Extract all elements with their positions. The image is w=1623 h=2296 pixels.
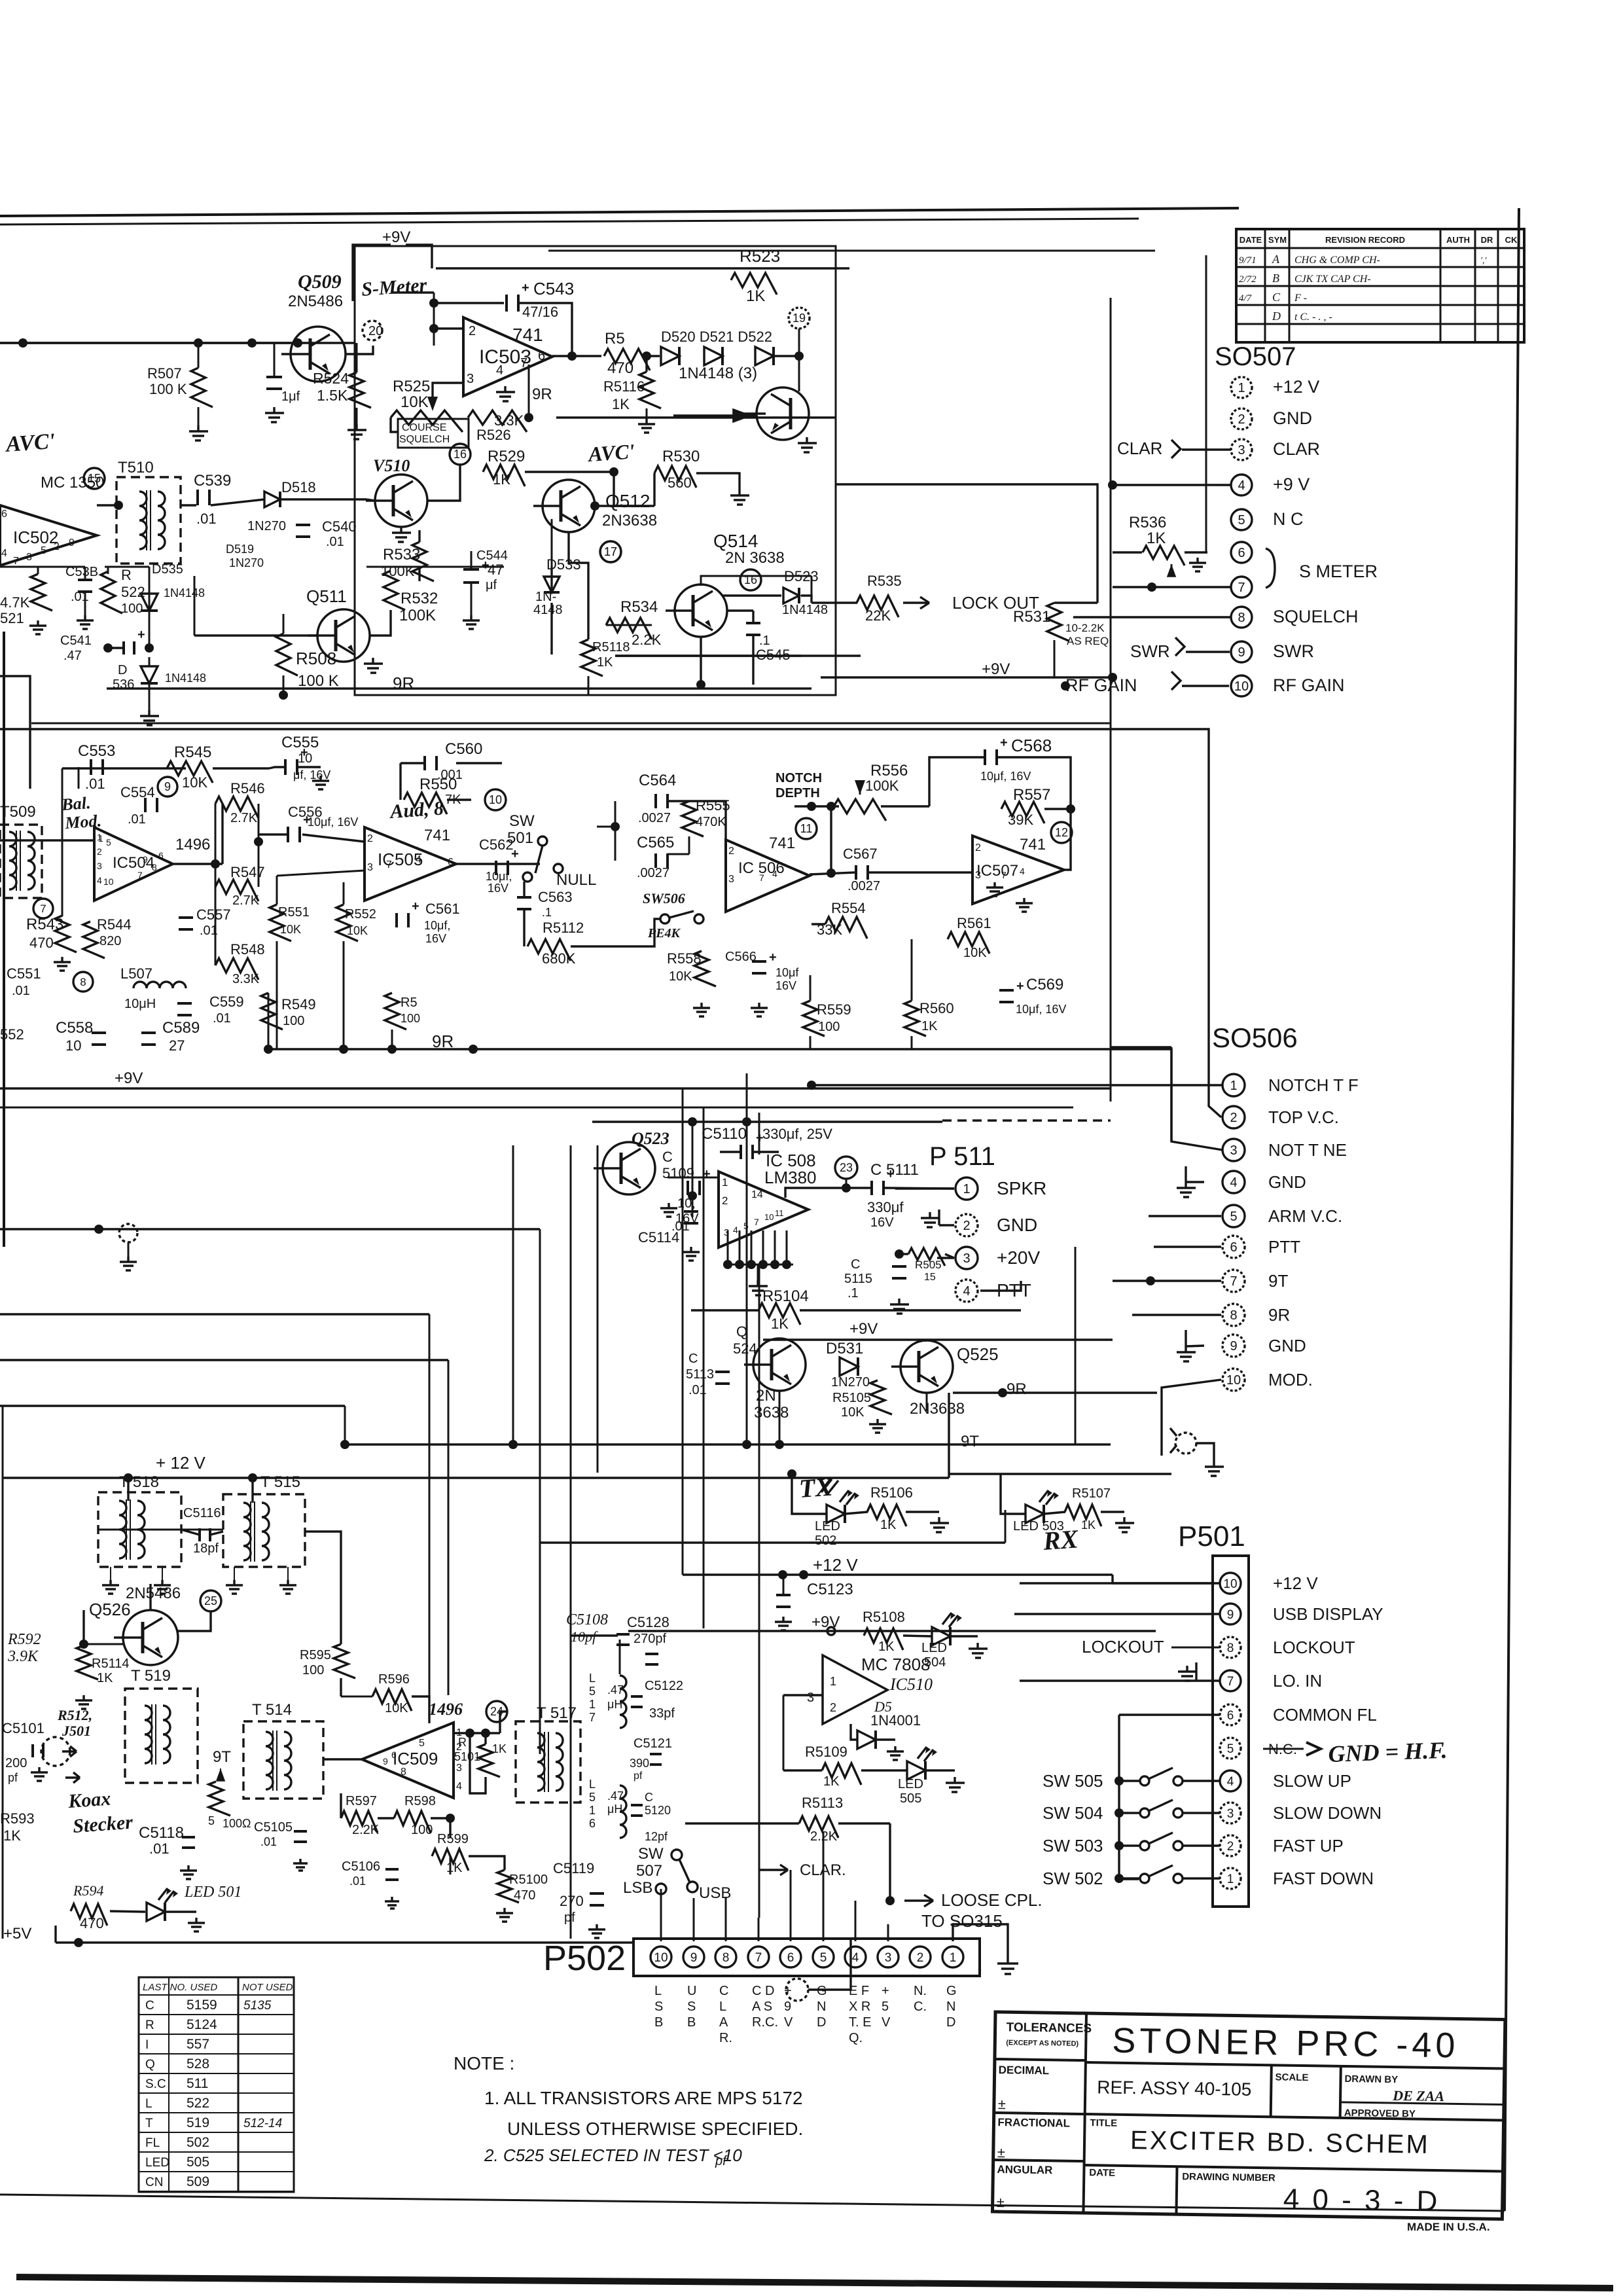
svg-text:R5118: R5118 xyxy=(592,640,630,655)
svg-text:R5112: R5112 xyxy=(543,920,584,936)
svg-text:+: + xyxy=(769,950,777,965)
svg-text:T510: T510 xyxy=(118,459,154,476)
svg-text:2: 2 xyxy=(97,846,102,857)
svg-text:GND: GND xyxy=(997,1215,1037,1235)
svg-text:+: + xyxy=(522,281,529,295)
svg-text:5120: 5120 xyxy=(645,1804,671,1817)
svg-text:4/7: 4/7 xyxy=(1239,293,1253,304)
svg-text:C568: C568 xyxy=(1011,736,1052,755)
svg-text:R546: R546 xyxy=(230,780,265,797)
svg-text:1: 1 xyxy=(963,1182,970,1196)
svg-text:+9 V: +9 V xyxy=(1273,475,1310,494)
svg-text:2: 2 xyxy=(1230,1111,1237,1125)
svg-text:USB DISPLAY: USB DISPLAY xyxy=(1273,1604,1383,1624)
svg-text:10: 10 xyxy=(298,751,312,766)
svg-text:C565: C565 xyxy=(637,834,674,852)
svg-text:7: 7 xyxy=(13,556,19,567)
svg-text:COURSE: COURSE xyxy=(402,422,446,433)
svg-text:12: 12 xyxy=(1055,826,1068,839)
svg-text:R597: R597 xyxy=(346,1794,377,1808)
svg-text:C5118: C5118 xyxy=(139,1824,184,1842)
svg-text:SO506: SO506 xyxy=(1212,1022,1298,1053)
svg-text:T: T xyxy=(145,2117,153,2130)
svg-text:2N5486: 2N5486 xyxy=(288,293,343,310)
svg-text:C5116: C5116 xyxy=(183,1506,221,1520)
svg-text:DATE: DATE xyxy=(1240,235,1262,245)
svg-text:4: 4 xyxy=(852,1951,859,1965)
svg-text:.01: .01 xyxy=(349,1874,366,1888)
svg-text:17: 17 xyxy=(604,545,617,558)
svg-text:.01: .01 xyxy=(260,1835,277,1848)
svg-text:1: 1 xyxy=(589,1698,596,1711)
svg-text:C D: C D xyxy=(752,1984,774,1998)
svg-text:μf: μf xyxy=(486,578,497,592)
svg-text:NOT USED: NOT USED xyxy=(242,1982,293,1993)
svg-text:3: 3 xyxy=(807,1691,814,1705)
svg-text:NOTCH T F: NOTCH T F xyxy=(1268,1075,1359,1095)
svg-text:22K: 22K xyxy=(865,607,891,624)
svg-text:8: 8 xyxy=(1238,611,1245,625)
svg-text:CLAR.: CLAR. xyxy=(800,1861,846,1879)
svg-text:C5122: C5122 xyxy=(645,1679,683,1693)
svg-text:3: 3 xyxy=(456,1763,462,1774)
svg-text:1K: 1K xyxy=(597,655,613,670)
svg-text:4: 4 xyxy=(1230,1175,1237,1190)
svg-text:C5119: C5119 xyxy=(553,1860,594,1876)
svg-text:RF GAIN: RF GAIN xyxy=(1273,675,1345,695)
svg-text:R560: R560 xyxy=(919,1000,954,1016)
svg-text:D: D xyxy=(817,2015,826,2030)
svg-text:TOLERANCES: TOLERANCES xyxy=(1006,2020,1092,2036)
svg-text:+5V: +5V xyxy=(3,1925,31,1943)
svg-text:LED: LED xyxy=(815,1519,840,1534)
svg-text:2N 3638: 2N 3638 xyxy=(725,549,785,567)
svg-text:B: B xyxy=(687,2015,696,2030)
svg-text:C5108: C5108 xyxy=(566,1611,608,1628)
svg-text:10K: 10K xyxy=(963,946,987,960)
svg-text:3: 3 xyxy=(367,862,373,873)
svg-text:1N270: 1N270 xyxy=(229,556,264,569)
svg-text:R556: R556 xyxy=(870,762,908,780)
svg-text:+12 V: +12 V xyxy=(1273,1573,1318,1593)
svg-text:GND: GND xyxy=(1268,1172,1306,1192)
svg-text:EXCITER BD. SCHEM: EXCITER BD. SCHEM xyxy=(1130,2126,1430,2159)
svg-text:3.9K: 3.9K xyxy=(7,1648,39,1665)
svg-text:8: 8 xyxy=(401,1767,406,1778)
svg-text:C: C xyxy=(719,1984,728,1998)
svg-text:R5: R5 xyxy=(401,996,418,1010)
svg-text:1K: 1K xyxy=(493,471,510,488)
svg-text:6: 6 xyxy=(1238,546,1245,560)
svg-text:10: 10 xyxy=(65,1037,81,1054)
svg-text:2: 2 xyxy=(469,324,476,338)
svg-text:GND: GND xyxy=(1268,1336,1306,1355)
svg-text:470K: 470K xyxy=(696,815,726,829)
svg-text:R552: R552 xyxy=(345,907,376,922)
svg-text:REVISION RECORD: REVISION RECORD xyxy=(1325,235,1405,245)
svg-text:C: C xyxy=(645,1791,653,1804)
svg-text:.47: .47 xyxy=(607,1789,624,1803)
svg-text:pf: pf xyxy=(8,1771,18,1784)
svg-text:C.: C. xyxy=(914,2000,927,2014)
svg-text:507: 507 xyxy=(636,1862,662,1880)
svg-text:1K: 1K xyxy=(492,1742,507,1755)
svg-text:522: 522 xyxy=(121,584,145,600)
svg-text:2. C525 SELECTED IN TEST <1: 2. C525 SELECTED IN TEST <10 xyxy=(484,2145,742,2165)
svg-text:TITLE: TITLE xyxy=(1090,2117,1117,2129)
svg-text:C541: C541 xyxy=(60,634,92,648)
svg-text:R523: R523 xyxy=(740,246,780,266)
svg-text:10K: 10K xyxy=(669,969,692,984)
svg-text:9R: 9R xyxy=(393,673,414,693)
svg-text:C5101: C5101 xyxy=(2,1720,45,1736)
svg-text:.01: .01 xyxy=(213,1011,231,1026)
svg-text:R598: R598 xyxy=(404,1794,436,1808)
svg-text:μH: μH xyxy=(607,1698,622,1711)
svg-text:1K: 1K xyxy=(880,1518,897,1532)
svg-text:100K: 100K xyxy=(399,607,436,624)
svg-text:1: 1 xyxy=(830,1675,836,1688)
svg-text:CLAR: CLAR xyxy=(1273,439,1320,459)
svg-text:470: 470 xyxy=(80,1915,104,1931)
svg-text:10K: 10K xyxy=(841,1405,865,1420)
svg-text:2: 2 xyxy=(975,842,981,853)
svg-text:C: C xyxy=(688,1352,698,1366)
svg-text:C540: C540 xyxy=(322,518,357,535)
svg-text:C: C xyxy=(1272,291,1281,304)
svg-text:DR: DR xyxy=(1481,235,1493,245)
svg-text:R: R xyxy=(145,2018,154,2032)
svg-text:pf: pf xyxy=(633,1770,643,1782)
svg-text:200: 200 xyxy=(5,1756,27,1770)
svg-text:7: 7 xyxy=(1227,1675,1234,1689)
svg-text:SO507: SO507 xyxy=(1215,342,1296,371)
svg-text:5: 5 xyxy=(589,1791,596,1804)
svg-text:L: L xyxy=(145,2097,152,2111)
svg-text:SCALE: SCALE xyxy=(1275,2072,1308,2083)
svg-text:512-14: 512-14 xyxy=(243,2117,282,2130)
svg-text:505: 505 xyxy=(187,2155,209,2170)
svg-text:19: 19 xyxy=(793,312,806,325)
svg-text:4: 4 xyxy=(416,854,421,865)
svg-text:NULL: NULL xyxy=(556,871,596,889)
svg-text:5113: 5113 xyxy=(686,1367,714,1382)
svg-text:+9V: +9V xyxy=(115,1069,143,1087)
svg-text:5: 5 xyxy=(1238,513,1245,528)
svg-text:100: 100 xyxy=(401,1012,420,1025)
svg-text:LM380: LM380 xyxy=(764,1168,817,1187)
svg-text:B: B xyxy=(1272,272,1279,285)
svg-text:CN: CN xyxy=(145,2176,163,2189)
svg-text:100: 100 xyxy=(121,601,143,616)
svg-text:4: 4 xyxy=(963,1284,970,1299)
svg-text:S-Meter: S-Meter xyxy=(361,274,427,300)
svg-text:T 514: T 514 xyxy=(252,1701,292,1719)
svg-text:7: 7 xyxy=(754,1217,759,1227)
svg-text:3: 3 xyxy=(1230,1143,1237,1158)
svg-text:R5108: R5108 xyxy=(863,1609,905,1625)
svg-text:FAST DOWN: FAST DOWN xyxy=(1273,1869,1374,1888)
svg-text:R5105: R5105 xyxy=(832,1391,871,1405)
svg-text:3: 3 xyxy=(1238,443,1245,457)
svg-text:9: 9 xyxy=(784,2000,791,2014)
svg-text:+: + xyxy=(412,899,419,914)
svg-text:16V: 16V xyxy=(488,882,508,895)
svg-text:11: 11 xyxy=(800,822,813,835)
svg-text:R549: R549 xyxy=(281,996,316,1013)
svg-text:D520 D521 D522: D520 D521 D522 xyxy=(661,329,772,345)
svg-text:NOT T NE: NOT T NE xyxy=(1268,1140,1347,1160)
svg-text:UNLESS OTHERWISE SPECIFIED.: UNLESS OTHERWISE SPECIFIED. xyxy=(507,2119,803,2139)
svg-text:C561: C561 xyxy=(425,901,460,917)
svg-text:4: 4 xyxy=(733,1225,738,1235)
svg-text:6: 6 xyxy=(158,850,164,861)
svg-text:L: L xyxy=(654,1984,662,1998)
svg-text:470: 470 xyxy=(514,1888,535,1903)
svg-text:U: U xyxy=(687,1984,696,1998)
svg-text:+ 12 V: + 12 V xyxy=(156,1453,206,1473)
svg-text:Bal.: Bal. xyxy=(60,793,91,814)
svg-text:LO. IN: LO. IN xyxy=(1273,1671,1322,1691)
svg-text:SW 505: SW 505 xyxy=(1043,1771,1103,1791)
svg-text:D531: D531 xyxy=(826,1340,863,1357)
svg-text:R.: R. xyxy=(719,2031,732,2045)
svg-text:R534: R534 xyxy=(620,598,658,616)
svg-text:AUTH: AUTH xyxy=(1446,235,1470,245)
svg-text:T 519: T 519 xyxy=(131,1667,171,1685)
svg-text:1: 1 xyxy=(589,1804,596,1817)
svg-text:C566: C566 xyxy=(725,950,757,964)
svg-text:.01: .01 xyxy=(671,1219,690,1234)
svg-text:AS REQ: AS REQ xyxy=(1067,635,1109,647)
svg-text:390: 390 xyxy=(630,1757,649,1770)
svg-text:6: 6 xyxy=(787,1951,794,1965)
svg-text:6: 6 xyxy=(391,1749,397,1760)
svg-text:SQUELCH: SQUELCH xyxy=(1273,607,1359,626)
svg-text:USB: USB xyxy=(699,1884,731,1902)
svg-text:R536: R536 xyxy=(1129,514,1166,531)
svg-text:SQUELCH: SQUELCH xyxy=(399,434,450,445)
svg-text:.1: .1 xyxy=(542,906,552,919)
svg-text:D: D xyxy=(1272,310,1281,323)
svg-text:R5: R5 xyxy=(605,330,625,348)
svg-text:.0027: .0027 xyxy=(637,866,669,880)
svg-text:9: 9 xyxy=(143,854,148,865)
svg-text:F -: F - xyxy=(1294,293,1307,304)
svg-text:IC507: IC507 xyxy=(976,862,1018,880)
svg-text:R596: R596 xyxy=(378,1672,410,1687)
svg-text:N C: N C xyxy=(1273,509,1304,529)
svg-text:DATE: DATE xyxy=(1089,2167,1115,2179)
svg-text:7: 7 xyxy=(1230,1274,1237,1289)
svg-text:511: 511 xyxy=(187,2076,208,2091)
svg-text:33pf: 33pf xyxy=(649,1706,675,1721)
svg-text:C554: C554 xyxy=(120,784,155,800)
svg-text:MADE IN U.S.A.: MADE IN U.S.A. xyxy=(1407,2221,1490,2233)
svg-text:Q: Q xyxy=(145,2058,155,2072)
svg-text:1K: 1K xyxy=(3,1827,21,1844)
svg-text:R599: R599 xyxy=(437,1832,469,1846)
svg-text:C563: C563 xyxy=(538,889,573,905)
svg-text:TX: TX xyxy=(798,1471,834,1503)
svg-text:S: S xyxy=(654,2000,663,2014)
svg-text:N.: N. xyxy=(914,1984,927,1998)
svg-text:4: 4 xyxy=(1,548,7,559)
svg-text:Koax: Koax xyxy=(67,1788,111,1813)
svg-text:D519: D519 xyxy=(226,543,254,556)
svg-text:1N4148: 1N4148 xyxy=(164,586,205,600)
svg-text:2N3638: 2N3638 xyxy=(910,1400,965,1418)
svg-text:9: 9 xyxy=(164,780,171,793)
svg-text:6: 6 xyxy=(1230,1240,1237,1255)
svg-text:P501: P501 xyxy=(1178,1520,1245,1552)
svg-text:L: L xyxy=(589,1778,596,1791)
svg-text:ARM V.C.: ARM V.C. xyxy=(1268,1206,1342,1226)
svg-text:2.2K: 2.2K xyxy=(352,1823,380,1837)
svg-text:680K: 680K xyxy=(542,950,576,967)
svg-text:7: 7 xyxy=(1238,581,1245,595)
svg-text:100K: 100K xyxy=(381,563,415,579)
svg-text:SLOW UP: SLOW UP xyxy=(1273,1771,1351,1791)
svg-text:5: 5 xyxy=(820,1951,827,1965)
svg-text:V: V xyxy=(882,2015,891,2030)
svg-text:7: 7 xyxy=(1001,870,1007,880)
svg-text:5: 5 xyxy=(419,1738,425,1749)
svg-text:8: 8 xyxy=(80,976,86,988)
svg-text:9: 9 xyxy=(1238,645,1245,660)
svg-text:D535: D535 xyxy=(152,562,183,577)
svg-text:C5110: C5110 xyxy=(702,1125,747,1143)
svg-text:5109: 5109 xyxy=(662,1165,694,1181)
svg-text:R550: R550 xyxy=(419,776,457,793)
svg-text:LOCKOUT: LOCKOUT xyxy=(1273,1638,1355,1657)
svg-text:1K: 1K xyxy=(97,1671,113,1685)
svg-text:270pf: 270pf xyxy=(633,1632,666,1646)
svg-text:+12 V: +12 V xyxy=(813,1555,858,1575)
svg-text:R545: R545 xyxy=(174,744,211,761)
svg-text:SYM: SYM xyxy=(1268,235,1287,245)
svg-text:9R: 9R xyxy=(1268,1305,1290,1325)
svg-text:.01: .01 xyxy=(326,535,344,549)
svg-text:R5113: R5113 xyxy=(802,1795,843,1811)
svg-text:CK: CK xyxy=(1505,235,1518,245)
svg-text:SW506: SW506 xyxy=(643,890,685,906)
svg-text:Aud, 8: Aud, 8 xyxy=(388,797,444,823)
svg-text:AVC': AVC' xyxy=(586,439,635,466)
svg-text:C5121: C5121 xyxy=(633,1736,672,1751)
svg-text:3: 3 xyxy=(963,1251,970,1266)
svg-text:R533: R533 xyxy=(383,546,420,564)
svg-text:9: 9 xyxy=(690,1951,698,1965)
svg-text:R535: R535 xyxy=(867,573,902,589)
svg-text:100: 100 xyxy=(818,1020,840,1034)
svg-text:2: 2 xyxy=(963,1219,970,1233)
svg-text:14: 14 xyxy=(751,1189,763,1200)
svg-text:V510: V510 xyxy=(373,456,410,475)
svg-text:MC 7808: MC 7808 xyxy=(861,1655,931,1674)
svg-text:6: 6 xyxy=(589,1817,596,1830)
svg-text:10K: 10K xyxy=(385,1701,408,1715)
svg-text:R558: R558 xyxy=(667,950,702,967)
svg-text:9: 9 xyxy=(69,537,75,548)
svg-text:5: 5 xyxy=(1227,1742,1234,1756)
svg-text:Q509: Q509 xyxy=(298,271,342,293)
svg-text:R5106: R5106 xyxy=(870,1484,913,1501)
svg-text:3: 3 xyxy=(26,552,32,563)
svg-text:IC509: IC509 xyxy=(393,1749,438,1768)
svg-text:C557: C557 xyxy=(196,906,231,923)
svg-text:+: + xyxy=(137,628,145,642)
svg-text:N: N xyxy=(946,2000,955,2014)
svg-text:G: G xyxy=(946,1984,957,1998)
svg-text:DRAWING NUMBER: DRAWING NUMBER xyxy=(1182,2171,1275,2183)
svg-text:+20V: +20V xyxy=(997,1247,1040,1268)
svg-text:47: 47 xyxy=(488,562,503,578)
svg-text:1N4148: 1N4148 xyxy=(165,672,206,685)
svg-text:47/16: 47/16 xyxy=(522,304,558,320)
svg-text:1N4148 (3): 1N4148 (3) xyxy=(679,365,757,382)
svg-text:521: 521 xyxy=(0,610,24,626)
svg-text:470: 470 xyxy=(607,359,633,377)
svg-text:10: 10 xyxy=(489,793,502,806)
svg-text:741: 741 xyxy=(424,827,450,844)
svg-text:+9V: +9V xyxy=(811,1613,840,1631)
svg-text:10μH: 10μH xyxy=(124,997,156,1011)
svg-text:AVC': AVC' xyxy=(4,429,56,457)
svg-text:TOP V.C.: TOP V.C. xyxy=(1268,1107,1339,1127)
svg-text:SPKR: SPKR xyxy=(997,1178,1046,1198)
svg-text:C 5111: C 5111 xyxy=(870,1161,919,1179)
svg-text:1: 1 xyxy=(1227,1873,1234,1886)
svg-text:L507: L507 xyxy=(120,965,152,982)
svg-text:R505: R505 xyxy=(915,1259,942,1271)
svg-text:IC502: IC502 xyxy=(13,528,58,547)
svg-text:R554: R554 xyxy=(831,900,866,916)
svg-text:100: 100 xyxy=(411,1823,433,1837)
svg-text:10μf, 16V: 10μf, 16V xyxy=(980,770,1031,783)
svg-text:4148: 4148 xyxy=(533,603,563,617)
svg-text:G: G xyxy=(817,1984,827,1998)
svg-text:GND = H.F.: GND = H.F. xyxy=(1328,1737,1448,1767)
svg-text:10K: 10K xyxy=(182,774,207,791)
svg-text:Q.: Q. xyxy=(849,2031,863,2045)
svg-text:NOTCH: NOTCH xyxy=(776,771,822,785)
svg-text:LSB: LSB xyxy=(623,1879,652,1897)
svg-text:10μf,: 10μf, xyxy=(424,919,450,932)
svg-text:DE ZAA: DE ZAA xyxy=(1392,2087,1444,2104)
svg-text:10: 10 xyxy=(103,876,114,887)
svg-text:Q525: Q525 xyxy=(957,1344,999,1364)
svg-text:100K: 100K xyxy=(865,778,899,794)
svg-text:L: L xyxy=(719,2000,726,2014)
svg-text:25: 25 xyxy=(204,1594,217,1607)
svg-text:CHG & COMP CH-: CHG & COMP CH- xyxy=(1294,255,1380,266)
svg-text:RX: RX xyxy=(1041,1524,1080,1556)
svg-text:C555: C555 xyxy=(281,734,319,751)
svg-text:SWR: SWR xyxy=(1130,641,1170,661)
svg-text:DECIMAL: DECIMAL xyxy=(999,2064,1050,2077)
svg-text:10K: 10K xyxy=(280,923,301,936)
svg-text:1μf: 1μf xyxy=(281,389,300,404)
svg-text:SW 504: SW 504 xyxy=(1043,1803,1103,1823)
svg-text:4: 4 xyxy=(97,875,102,886)
svg-text:1N4148: 1N4148 xyxy=(782,603,828,617)
svg-text:552: 552 xyxy=(0,1026,24,1043)
svg-text:LAST NO. USED: LAST NO. USED xyxy=(143,1982,217,1993)
svg-text:1: 1 xyxy=(950,1951,957,1965)
svg-text:9/71: 9/71 xyxy=(1239,255,1257,266)
svg-text:560: 560 xyxy=(668,475,692,491)
